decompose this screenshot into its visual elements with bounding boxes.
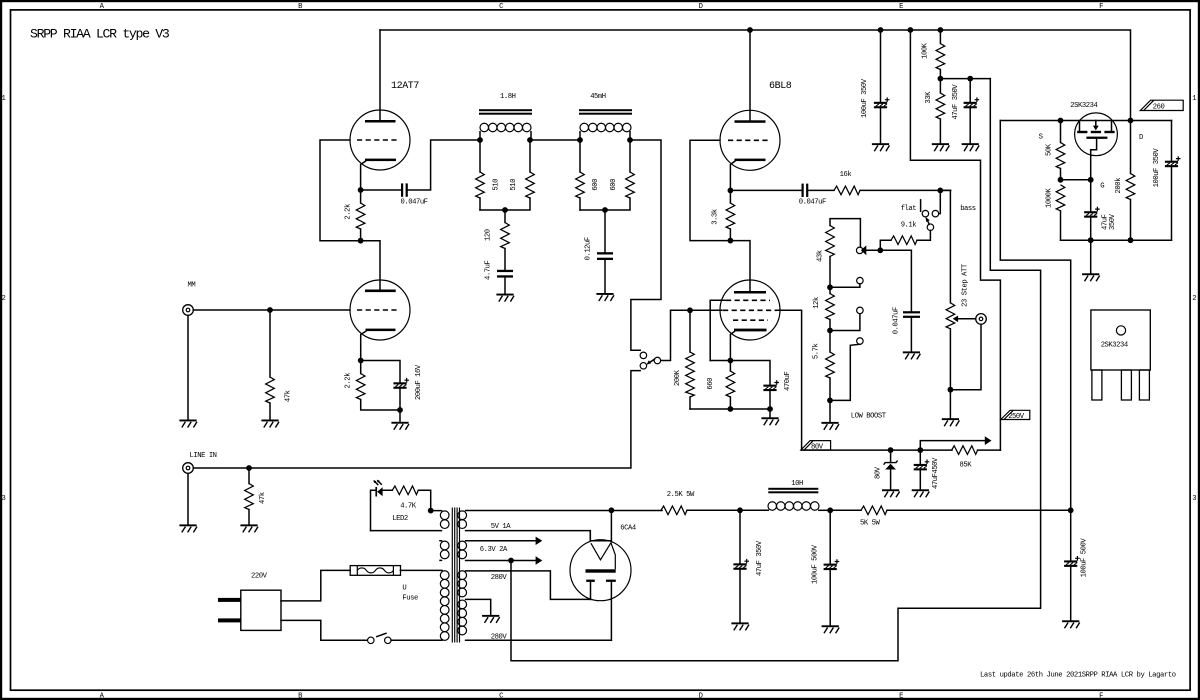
- svg-text:0.047uF: 0.047uF: [401, 199, 428, 207]
- svg-text:2.2k: 2.2k: [345, 373, 353, 389]
- switch S2 common: [927, 224, 934, 231]
- node bottom gate cap: [1088, 237, 1094, 243]
- svg-text:100uF 350V: 100uF 350V: [861, 78, 869, 118]
- svg-text:2: 2: [1192, 295, 1196, 303]
- svg-text:47k: 47k: [259, 492, 267, 504]
- node L2 right: [627, 137, 633, 143]
- svg-text:510: 510: [510, 179, 518, 191]
- node rail dropper: [908, 27, 914, 33]
- resistor R21 1000K: [1056, 185, 1065, 211]
- jack output: [976, 314, 987, 325]
- wire cathode bottom row: [690, 409, 770, 417]
- switch S2 wiper arrow: [925, 217, 929, 225]
- resistor R19 33K: [936, 93, 945, 119]
- node LED winding top: [428, 508, 434, 514]
- node gate: [1088, 177, 1094, 183]
- node 660 bottom: [728, 406, 734, 412]
- node gate divider: [1058, 177, 1064, 183]
- node divider mid: [938, 76, 944, 82]
- node 510 junction: [502, 207, 508, 213]
- wire heater elevation run: [511, 79, 1041, 661]
- svg-text:100uF 350V: 100uF 350V: [1153, 148, 1161, 188]
- transformer T1 secondary 280V winding: [458, 571, 467, 635]
- node 600 junction: [602, 207, 608, 213]
- wire MOSFET bottom rail: [1061, 239, 1172, 241]
- wire 6BL8 triode grid: [690, 140, 730, 240]
- node pentode cathode: [728, 358, 734, 364]
- svg-text:220V: 220V: [251, 572, 268, 580]
- fuse F1: [350, 566, 400, 576]
- svg-text:U: U: [402, 585, 406, 593]
- svg-text:2: 2: [1, 295, 5, 303]
- switch S3 contact 1: [857, 277, 864, 284]
- arrow 6.3V top: [536, 537, 543, 545]
- resistor R16 12k: [826, 294, 835, 320]
- resistor R1 2.2k upper: [356, 203, 365, 229]
- svg-text:5K 5W: 5K 5W: [860, 520, 880, 528]
- switch S3 contact 2: [857, 307, 864, 314]
- node rail drain: [1128, 118, 1134, 124]
- ground C8: [872, 143, 890, 151]
- resistor R24 4.7K: [392, 486, 418, 495]
- svg-text:12k: 12k: [813, 297, 821, 309]
- node L1 left: [477, 137, 483, 143]
- ground MM jack: [179, 420, 197, 428]
- svg-text:100uF 500V: 100uF 500V: [1081, 538, 1089, 578]
- transformer T1 primary LED winding: [371, 511, 450, 531]
- svg-text:G: G: [1100, 182, 1104, 190]
- ground C13: [731, 622, 749, 630]
- svg-text:660: 660: [707, 378, 715, 390]
- svg-text:33K: 33K: [925, 91, 933, 104]
- resistor R10 200K grid: [686, 352, 695, 397]
- svg-text:3: 3: [1, 495, 5, 503]
- svg-text:D: D: [699, 693, 703, 700]
- node L2 left: [577, 137, 583, 143]
- svg-text:47uF 350V: 47uF 350V: [756, 540, 764, 576]
- svg-text:0.12uF: 0.12uF: [585, 237, 593, 260]
- wire contact3 stem: [830, 344, 860, 400]
- svg-text:280V: 280V: [491, 634, 508, 642]
- switch S1 contact LINE: [640, 363, 647, 370]
- svg-text:E: E: [899, 3, 903, 11]
- node zener tap: [888, 447, 894, 453]
- svg-text:23 Step ATT: 23 Step ATT: [962, 263, 970, 307]
- wire contact1 stem: [830, 284, 860, 287]
- wire center tap: [466, 599, 491, 615]
- flag net 80V: [801, 441, 831, 452]
- ground C12: [912, 489, 930, 497]
- diode D1 zener 80V: [884, 450, 898, 489]
- svg-text:MM: MM: [188, 282, 196, 290]
- capacitor C15 100uF 500V out: [1064, 510, 1080, 620]
- wire contact2 stem: [830, 314, 860, 331]
- node filter1: [737, 507, 743, 513]
- wire 5V bottom lead: [466, 531, 591, 541]
- resistor R6 120: [501, 223, 510, 249]
- wire fuse to primary: [401, 569, 443, 571]
- tube 6CA4 rectifier: [570, 510, 631, 640]
- node filter2: [827, 507, 833, 513]
- svg-text:80V: 80V: [811, 443, 824, 451]
- resistor R15 43k: [826, 226, 835, 257]
- ground LINE jack: [179, 524, 197, 532]
- wire B+ riser from PSU: [1000, 121, 1070, 511]
- resistor R5 510 right: [526, 172, 535, 198]
- node L1 right: [527, 137, 533, 143]
- node pot bottom: [948, 387, 954, 393]
- wire wiper to jack: [958, 318, 976, 320]
- transformer T1 left aux winding: [440, 541, 449, 561]
- svg-text:F: F: [1099, 3, 1103, 11]
- wire S2 common to 9.1k: [917, 231, 930, 241]
- capacitor C4 0.12uF: [597, 210, 613, 293]
- resistor R11 3.3k: [726, 203, 735, 229]
- ground 47k LINE: [240, 524, 258, 532]
- resistor R22 200k: [1126, 174, 1135, 200]
- svg-text:1000K: 1000K: [1046, 188, 1054, 208]
- svg-text:SRPP RIAA LCR type V3: SRPP RIAA LCR type V3: [30, 27, 170, 42]
- svg-text:0.047uF: 0.047uF: [799, 198, 826, 206]
- switch S2 contact bass: [932, 210, 939, 217]
- resistor R25 2.5K 5W: [661, 506, 687, 515]
- wire arrow 250V pointer: [920, 441, 985, 451]
- resistor R7 600 left: [576, 172, 585, 198]
- svg-text:LOW BOOST: LOW BOOST: [851, 412, 887, 420]
- svg-text:4.7uF: 4.7uF: [484, 261, 492, 280]
- package 2SK3234 outline: [1091, 310, 1150, 400]
- wire LINE jack stem: [187, 473, 189, 524]
- svg-text:5.7k: 5.7k: [813, 344, 821, 360]
- svg-text:250V: 250V: [1008, 413, 1025, 421]
- wire MM input to grid: [193, 309, 350, 311]
- wire B+ dropper staircase: [910, 30, 1000, 450]
- svg-text:200k: 200k: [1115, 178, 1123, 194]
- wire wiper to node: [866, 249, 880, 251]
- node 470uF bottom: [767, 406, 773, 412]
- svg-text:3.3k: 3.3k: [711, 209, 719, 225]
- wire pentode g3 tie: [710, 300, 726, 360]
- svg-text:16k: 16k: [840, 171, 852, 179]
- node 47uF tap: [967, 76, 973, 82]
- svg-text:43k: 43k: [816, 250, 824, 262]
- node 6BL8 triode cathode: [728, 188, 734, 194]
- svg-text:100uF 500V: 100uF 500V: [811, 544, 819, 584]
- wire to pentode plate: [730, 241, 750, 291]
- ground mosfet block: [1082, 273, 1100, 281]
- ground C15: [1062, 620, 1080, 628]
- node 6BL8 plate rail: [747, 27, 753, 33]
- node pentode grid: [687, 307, 693, 313]
- node bottom 200k: [1128, 237, 1134, 243]
- wire node to lowboost cap: [880, 250, 911, 311]
- wire 6.3V bottom lead: [466, 560, 536, 562]
- wire plug upper lead: [281, 570, 350, 601]
- potentiometer 23 step ATT: [946, 303, 955, 329]
- svg-text:1: 1: [1, 95, 5, 103]
- tube 12AT7 upper triode U1a: [350, 30, 410, 190]
- svg-text:80V: 80V: [874, 466, 882, 479]
- wire att pot feed: [940, 190, 950, 302]
- flag net 260: [1140, 100, 1183, 111]
- wire 6.3V top lead: [466, 540, 536, 542]
- wire MOSFET source rail: [1000, 120, 1171, 122]
- node MM 47k: [267, 307, 273, 313]
- wire lowboost ground stem: [829, 400, 831, 422]
- arrow head 250V: [985, 436, 992, 445]
- svg-text:47uF 350V: 47uF 350V: [952, 84, 960, 120]
- svg-text:10H: 10H: [791, 480, 803, 488]
- resistor R4 510 left: [476, 172, 485, 198]
- capacitor C14 100uF 500V psu: [824, 510, 840, 625]
- wire MM jack stem: [187, 315, 189, 419]
- wire plug lower lead: [281, 620, 368, 640]
- tube 6BL8 triode U2a: [720, 30, 780, 190]
- node wiper 9.1k junction: [877, 247, 883, 253]
- node 47uF450V tap: [917, 447, 923, 453]
- svg-text:2.2k: 2.2k: [344, 204, 352, 220]
- switch S3 contact 3: [857, 338, 864, 345]
- svg-text:E: E: [899, 693, 903, 700]
- transformer T1 secondary 5V winding: [458, 511, 467, 529]
- capacitor C13 47uF 350V psu: [733, 510, 749, 622]
- switch S2 lever flat: [920, 200, 922, 211]
- resistor R12 660: [726, 371, 735, 397]
- wire divider to 47uF: [940, 78, 990, 80]
- svg-text:200K: 200K: [674, 369, 682, 386]
- resistor R14 9.1k: [891, 236, 917, 245]
- wire 43k top to wiper: [830, 219, 860, 247]
- svg-text:280V: 280V: [491, 574, 508, 582]
- svg-text:D: D: [699, 3, 703, 11]
- svg-text:6CA4: 6CA4: [620, 525, 636, 533]
- ground 0.12uF: [596, 293, 614, 301]
- transformer T1 core: [452, 508, 459, 643]
- svg-text:47k: 47k: [284, 390, 292, 402]
- ground pot: [942, 418, 960, 426]
- switch S1 contact MM: [640, 352, 647, 359]
- resistor R2 47k MM load: [266, 377, 275, 403]
- wire mosfet ground stem: [1090, 240, 1092, 273]
- ground zener: [882, 489, 900, 497]
- svg-text:Last update 26th June 2021SRPP: Last update 26th June 2021SRPP RIAA LCR …: [980, 672, 1176, 680]
- ground center tap: [482, 615, 500, 623]
- resistor R3 2.2k lower: [356, 374, 365, 400]
- svg-text:85K: 85K: [960, 462, 973, 470]
- ground 4.7uF: [496, 294, 514, 302]
- capacitor C5 470uF: [763, 380, 779, 391]
- capacitor C12 47uF450V: [914, 450, 930, 489]
- label U Fuse: [402, 585, 418, 603]
- svg-text:9.1k: 9.1k: [901, 222, 917, 230]
- node cathode network bottom: [397, 407, 403, 413]
- capacitor C8 100uF 350V: [874, 30, 890, 143]
- svg-text:2SK3234: 2SK3234: [1070, 102, 1097, 110]
- svg-text:260: 260: [1153, 103, 1165, 111]
- ground cathode network: [391, 422, 409, 430]
- wire pentode screen out: [777, 310, 802, 450]
- svg-text:5V 1A: 5V 1A: [491, 523, 511, 531]
- capacitor C9 47uF 350V: [964, 79, 980, 144]
- wire to lower plate: [361, 241, 380, 290]
- svg-text:F: F: [1099, 693, 1103, 700]
- svg-text:45mH: 45mH: [590, 93, 606, 101]
- wire LCR line: [530, 139, 580, 141]
- svg-text:470uF: 470uF: [784, 372, 792, 391]
- svg-text:S: S: [1039, 134, 1043, 142]
- svg-text:flat: flat: [901, 205, 917, 213]
- node 12k 5.7k junction: [827, 328, 833, 334]
- ground lowboost cap: [903, 351, 921, 359]
- capacitor C6 0.047uF coupling2: [730, 184, 834, 197]
- node SRPP mid: [728, 238, 734, 244]
- svg-text:600: 600: [610, 179, 618, 191]
- svg-text:LINE IN: LINE IN: [190, 452, 217, 460]
- resistor R20 50K: [1056, 143, 1065, 169]
- switch S3 wiper contact: [856, 247, 863, 254]
- wire switch to primary: [391, 639, 442, 641]
- resistor R23 85K: [952, 446, 978, 455]
- capacitor C3 4.7uF: [497, 270, 513, 294]
- inductor L2 45mH: [579, 109, 632, 140]
- node rail 100K: [938, 27, 944, 33]
- svg-text:47uF450V: 47uF450V: [932, 457, 940, 489]
- inductor L1 1.8H: [479, 109, 532, 140]
- wire pot ground stem: [949, 390, 951, 419]
- svg-text:350V: 350V: [1109, 213, 1117, 230]
- node LINE 47k: [246, 465, 252, 471]
- wire gate tie: [1061, 179, 1091, 181]
- switch S1 common: [654, 357, 661, 364]
- wire grid feedback loop upper triode: [320, 140, 361, 241]
- svg-text:2SK3234: 2SK3234: [1101, 341, 1128, 349]
- svg-text:4.7K: 4.7K: [400, 503, 417, 511]
- capacitor C2 200uF 16V: [393, 378, 409, 389]
- wire 5V top lead B+: [466, 510, 662, 512]
- svg-text:12AT7: 12AT7: [391, 81, 419, 92]
- capacitor C7 0.047uF lowboost: [903, 311, 920, 351]
- svg-text:600: 600: [592, 179, 600, 191]
- svg-text:bass: bass: [960, 205, 976, 213]
- node upper cathode: [358, 187, 364, 193]
- svg-text:LED2: LED2: [392, 515, 408, 523]
- svg-text:6BL8: 6BL8: [769, 81, 792, 92]
- svg-text:50K: 50K: [1046, 143, 1054, 156]
- node 6CA4 output: [609, 507, 615, 513]
- resistor R26 5K 5W: [861, 506, 887, 515]
- switch S1 wiper arrow: [646, 359, 654, 365]
- ground 33K: [932, 143, 950, 151]
- svg-text:1: 1: [1192, 95, 1196, 103]
- wire LED left leg: [371, 490, 376, 530]
- arrow 6.3V bottom: [536, 556, 543, 564]
- flag net 250V: [1001, 410, 1030, 421]
- ground 47k MM: [261, 420, 279, 428]
- capacitor C1 0.047uF coupling: [361, 140, 480, 197]
- capacitor C10 47uF 350V gate: [1084, 180, 1100, 240]
- tube 6BL8 pentode U2b: [720, 280, 780, 361]
- label 47uF 350V gate: [1102, 213, 1118, 230]
- ground cathode network 6BL8: [761, 417, 779, 425]
- transistor Q1 2SK3234: [1075, 113, 1118, 180]
- node B+ riser: [1068, 507, 1074, 513]
- node lower cathode: [358, 358, 364, 364]
- node heater elevation: [508, 558, 514, 564]
- ground C14: [822, 625, 840, 633]
- switch S4 mains: [368, 633, 392, 643]
- svg-text:0.047uF: 0.047uF: [893, 307, 901, 334]
- pot wiper arrow: [953, 316, 958, 323]
- switch S2 contact flat: [922, 210, 929, 217]
- plug AC 220V: [218, 590, 281, 630]
- wire to ground: [399, 410, 401, 422]
- transformer T1 secondary 6.3V winding: [458, 541, 467, 559]
- wire cathode to bypass cap: [361, 361, 400, 383]
- node 43k 12k junction: [827, 284, 833, 290]
- svg-text:120: 120: [484, 229, 492, 241]
- svg-text:1.8H: 1.8H: [500, 93, 516, 101]
- node 2.2k bottom: [358, 238, 364, 244]
- svg-text:2.5K 5W: 2.5K 5W: [667, 491, 695, 499]
- wire cathode row: [710, 361, 770, 385]
- svg-text:6.3V 2A: 6.3V 2A: [480, 546, 508, 554]
- node rail cap1: [878, 27, 884, 33]
- wire selector common to pentode grid: [661, 310, 722, 360]
- wire screen rail 80V: [802, 449, 952, 451]
- svg-text:100K: 100K: [922, 42, 930, 59]
- node 5.7k bottom: [827, 398, 833, 404]
- resistor R8 600 right: [626, 172, 635, 198]
- resistor R9 47k LINE load: [245, 484, 254, 510]
- svg-text:200uF 16V: 200uF 16V: [415, 364, 423, 400]
- jack LINE IN: [183, 463, 194, 474]
- ground C9: [962, 143, 980, 151]
- wire MM branch to selector: [630, 140, 661, 350]
- resistor R18 100K: [936, 44, 945, 70]
- svg-text:510: 510: [492, 179, 500, 191]
- capacitor C11 100uF 350V out: [1165, 121, 1181, 241]
- svg-text:Fuse: Fuse: [402, 594, 418, 602]
- ground lowboost chain: [821, 422, 839, 430]
- wire bass contact drop: [939, 190, 941, 213]
- resistor R17 5.7k: [826, 352, 835, 378]
- wire 280V top lead: [466, 571, 591, 600]
- wire 280V bottom lead: [466, 639, 612, 641]
- wire B+ top rail: [380, 30, 1131, 121]
- node tone branch: [937, 188, 943, 194]
- LED LED2: [373, 480, 382, 497]
- svg-text:D: D: [1139, 134, 1143, 142]
- tube 12AT7 lower triode U1b: [350, 280, 410, 361]
- wire jack return: [950, 324, 981, 390]
- switch S3 wiper arrow: [861, 245, 866, 255]
- wire LINE IN run: [193, 371, 640, 468]
- jack MM input: [183, 305, 194, 316]
- node rail 50K: [1058, 118, 1064, 124]
- resistor R13 16k: [834, 186, 860, 195]
- inductor L3 10H choke: [740, 488, 830, 511]
- svg-text:3: 3: [1192, 495, 1196, 503]
- transformer T1 primary 220V winding: [440, 571, 449, 641]
